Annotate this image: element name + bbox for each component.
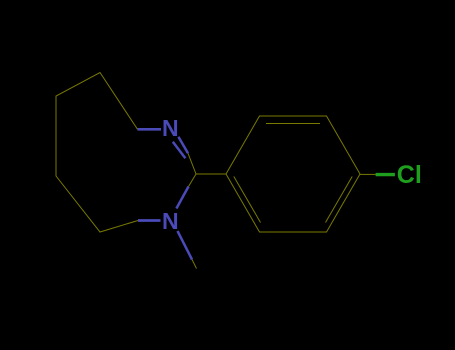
olive joint C2 lower (continuation of C2-N3) — [189, 174, 197, 187]
N1=C2 double bond main line blue half — [178, 137, 188, 154]
bond benzene to Cl : olive half — [360, 173, 376, 175]
bond C2 to benzene — [196, 173, 226, 175]
svg-text:Cl: Cl — [397, 161, 422, 189]
svg-text:N: N — [162, 115, 179, 141]
N3 bond to ring — [138, 219, 161, 222]
benzene ring — [226, 116, 360, 232]
N3 methyl bond — [178, 231, 193, 260]
benzene inner double bond line bottom-right — [326, 177, 353, 223]
svg-text:N: N — [162, 208, 179, 234]
left macrocycle carbon chain — [56, 73, 138, 233]
N3 methyl bond olive tip — [192, 260, 197, 269]
bond benzene to Cl : green half — [376, 173, 395, 176]
olive joint C2 upper (continuation of N1=C2) — [188, 153, 196, 174]
N1=C2 inner parallel line — [173, 142, 186, 159]
C2-N3 bond blue half — [176, 187, 188, 209]
benzene inner double bond line bottom-left — [234, 177, 261, 223]
N1 bond to ring — [138, 128, 162, 131]
benzene inner double bond line top — [266, 123, 320, 125]
